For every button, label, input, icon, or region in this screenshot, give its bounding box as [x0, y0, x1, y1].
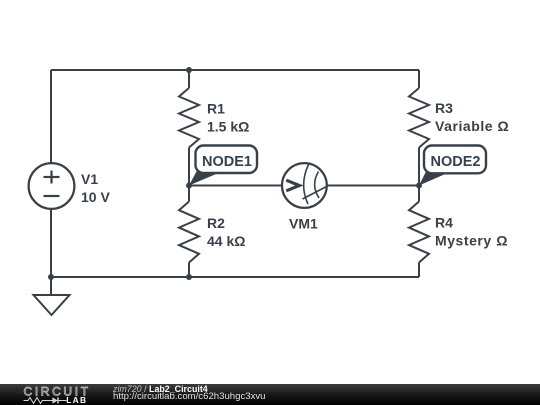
svg-text:R2: R2: [207, 215, 225, 231]
svg-text:VM1: VM1: [289, 216, 318, 232]
node junction dot bottom rail / R2: [186, 274, 192, 280]
wire R3 to NODE2: [418, 148, 420, 186]
wire R1 to NODE1: [188, 148, 190, 186]
wire NODE1 to voltmeter: [189, 185, 282, 187]
svg-text:NODE2: NODE2: [431, 154, 481, 170]
node junction dot bottom rail / ground: [48, 274, 54, 280]
node NODE2 flag: [419, 146, 486, 186]
svg-text:10 V: 10 V: [81, 189, 110, 205]
wire NODE1 to R2: [188, 186, 190, 202]
svg-text:LAB: LAB: [66, 395, 87, 405]
voltage source V1: [29, 163, 75, 209]
wire top horizontal: [51, 69, 419, 71]
resistor R2: [179, 202, 199, 263]
wire R2 to bottom rail: [188, 263, 190, 278]
node NODE2 junction dot: [416, 183, 422, 189]
svg-text:R1: R1: [207, 101, 225, 117]
footer bar: [0, 384, 540, 405]
svg-text:Variable Ω: Variable Ω: [435, 118, 509, 134]
wire right vertical top lead (top rail to R3): [418, 70, 420, 88]
label V1 value: [81, 100, 509, 249]
resistor R4: [409, 202, 429, 263]
svg-text:V1: V1: [81, 171, 98, 187]
svg-text:Mystery Ω: Mystery Ω: [435, 233, 508, 249]
wire NODE2 to R4: [418, 186, 420, 202]
svg-text:R4: R4: [435, 215, 453, 231]
svg-text:R3: R3: [435, 100, 453, 116]
CircuitLab logo: [22, 384, 117, 405]
wire middle vertical top lead (top rail to R1): [188, 70, 190, 88]
node NODE1 junction dot: [186, 183, 192, 189]
resistor R1: [179, 88, 199, 148]
node junction dot top rail / R1: [186, 67, 192, 73]
wire left vertical lower (V1 to bottom rail): [50, 209, 52, 277]
footer url text: [113, 392, 266, 402]
ground: [34, 295, 70, 315]
node NODE1 flag: [189, 146, 257, 186]
svg-text:44 kΩ: 44 kΩ: [207, 233, 245, 249]
resistor R3: [409, 88, 429, 148]
svg-text:NODE1: NODE1: [202, 154, 252, 170]
wire R4 to bottom rail: [418, 263, 420, 278]
footer title text: [113, 385, 208, 394]
wire ground stub: [50, 277, 52, 295]
wire left vertical upper (top rail to V1): [50, 70, 52, 163]
svg-text:1.5 kΩ: 1.5 kΩ: [207, 119, 249, 135]
voltmeter VM1: [282, 163, 330, 208]
wire voltmeter to NODE2: [327, 185, 419, 187]
wire bottom horizontal: [51, 276, 419, 278]
